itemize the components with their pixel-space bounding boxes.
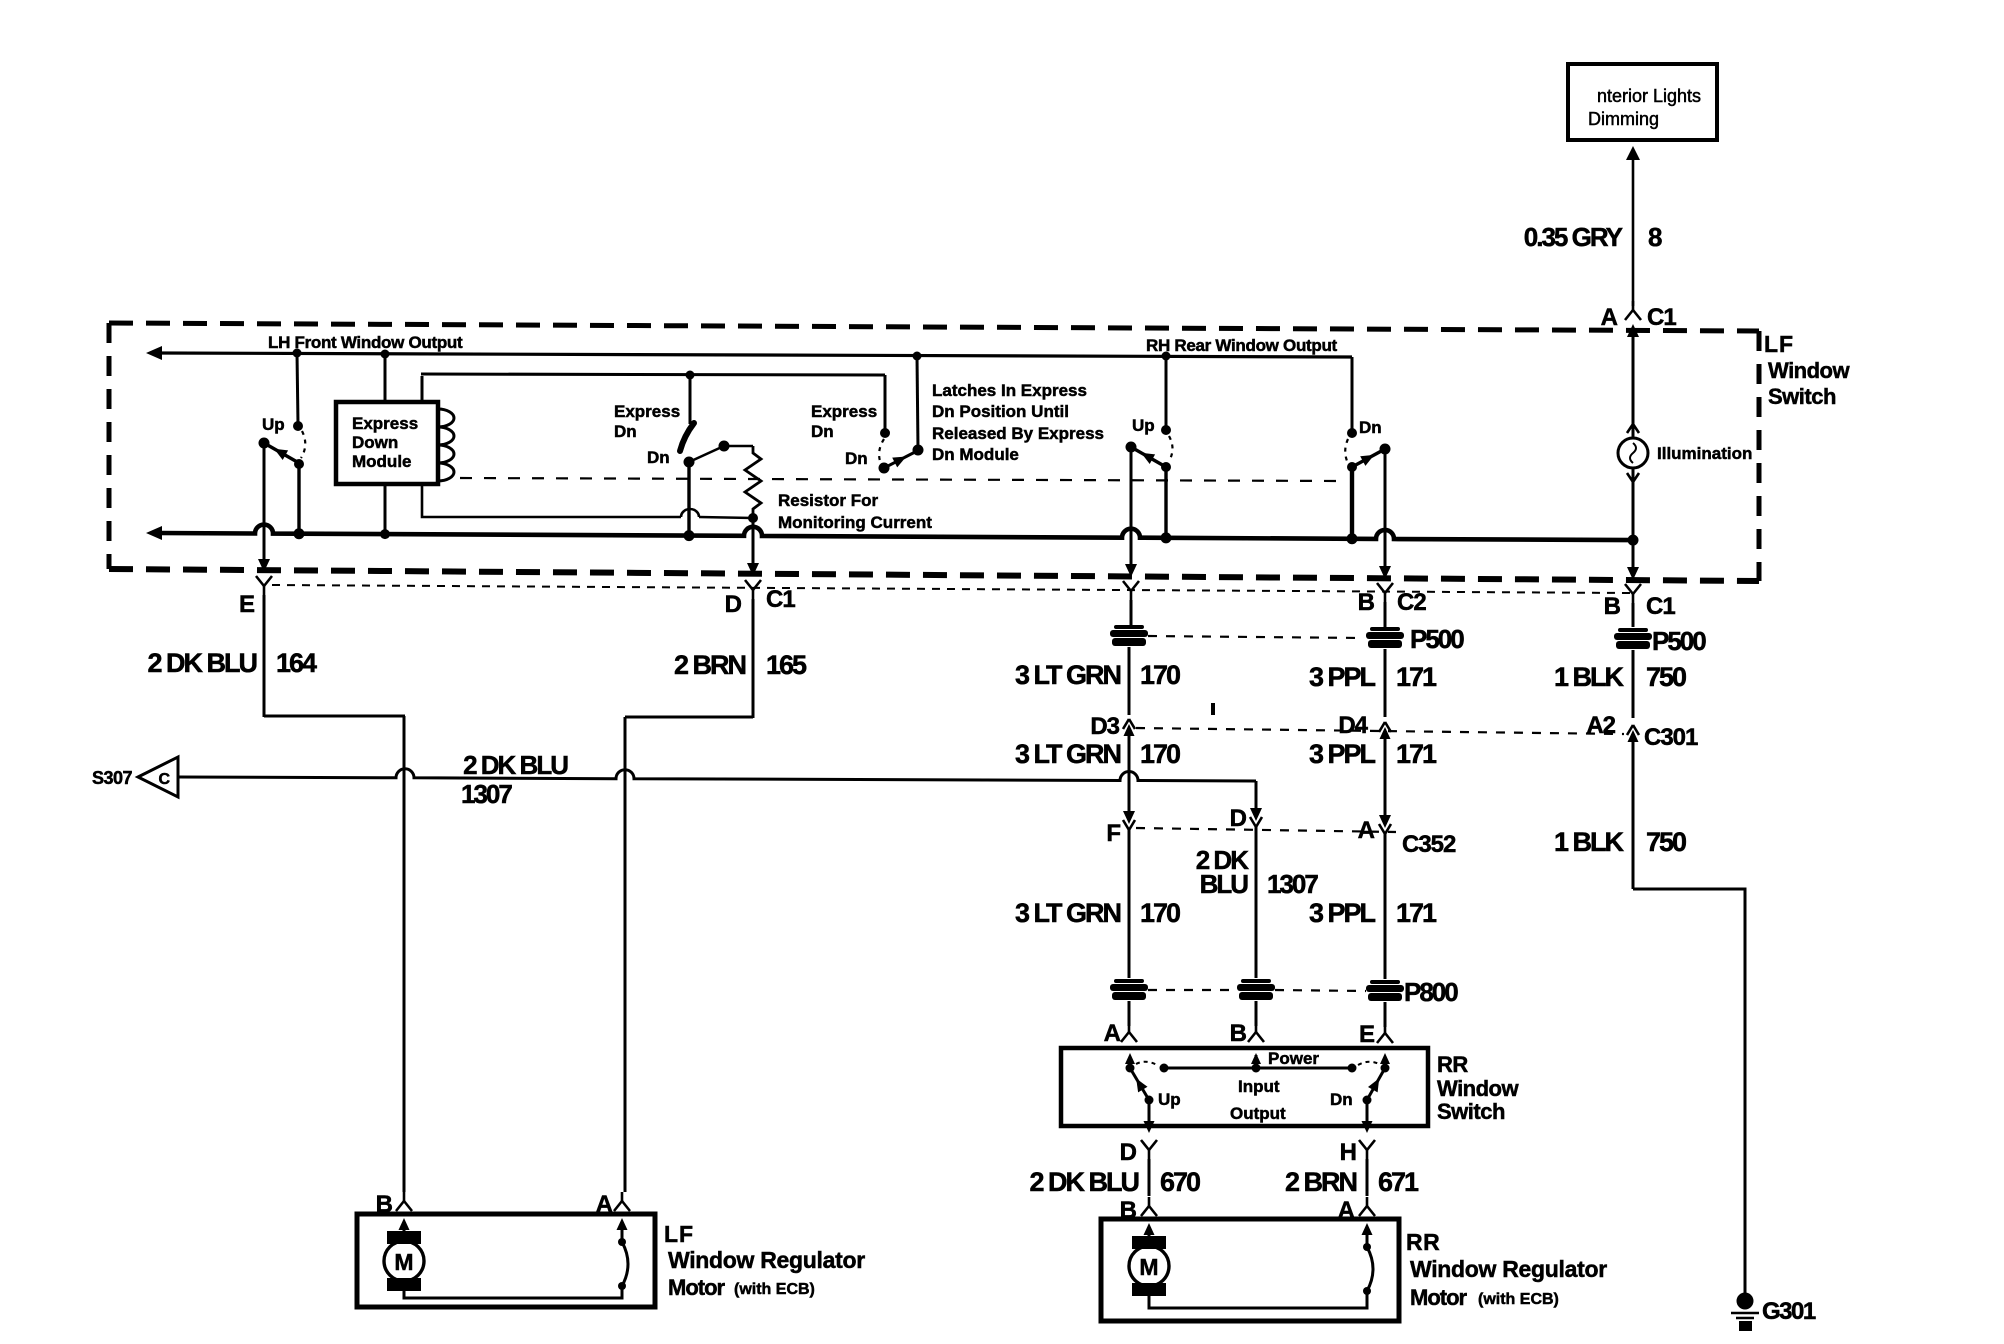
svg-text:Express: Express [811, 402, 877, 421]
svg-text:C1: C1 [766, 586, 795, 613]
svg-text:164: 164 [276, 648, 317, 678]
svg-text:Express: Express [614, 402, 680, 421]
svg-text:2 BRN: 2 BRN [1285, 1167, 1357, 1197]
svg-text:P500: P500 [1410, 624, 1464, 654]
svg-text:171: 171 [1396, 739, 1437, 769]
svg-text:E: E [1359, 1021, 1375, 1048]
svg-text:3 LT GRN: 3 LT GRN [1015, 898, 1121, 928]
svg-text:C: C [158, 771, 170, 788]
svg-text:Switch: Switch [1768, 384, 1836, 409]
svg-text:750: 750 [1646, 662, 1686, 692]
svg-text:Dn: Dn [845, 449, 868, 468]
svg-text:D: D [1230, 805, 1247, 832]
svg-text:Illumination: Illumination [1657, 444, 1752, 463]
svg-text:Motor: Motor [1410, 1285, 1468, 1310]
svg-text:Dn Position Until: Dn Position Until [932, 402, 1069, 421]
svg-text:D: D [1120, 1139, 1137, 1166]
svg-text:(with ECB): (with ECB) [1478, 1291, 1559, 1308]
svg-text:RH Rear Window Output: RH Rear Window Output [1146, 336, 1338, 355]
svg-text:LF: LF [1764, 331, 1794, 357]
svg-text:Window: Window [1437, 1076, 1519, 1101]
svg-text:Dn Module: Dn Module [932, 445, 1019, 464]
svg-text:D3: D3 [1090, 713, 1119, 740]
svg-text:C1: C1 [1646, 593, 1675, 620]
svg-text:B: B [1358, 589, 1375, 616]
svg-text:C2: C2 [1397, 589, 1426, 616]
svg-text:Dn: Dn [1330, 1090, 1353, 1109]
svg-text:Window Regulator: Window Regulator [1410, 1256, 1607, 1282]
svg-text:Up: Up [1158, 1090, 1181, 1109]
svg-text:Resistor For: Resistor For [778, 491, 879, 510]
svg-text:Module: Module [352, 452, 412, 471]
svg-text:A: A [1104, 1020, 1121, 1047]
svg-text:Motor: Motor [668, 1275, 726, 1300]
svg-text:3 PPL: 3 PPL [1309, 898, 1376, 928]
svg-text:Up: Up [262, 415, 285, 434]
svg-text:1307: 1307 [461, 779, 512, 809]
svg-text:Monitoring Current: Monitoring Current [778, 513, 932, 532]
svg-text:0.35 GRY: 0.35 GRY [1524, 222, 1623, 252]
svg-text:M: M [394, 1249, 413, 1275]
svg-text:Dn: Dn [647, 448, 670, 467]
svg-text:Window Regulator: Window Regulator [668, 1247, 865, 1273]
svg-text:Dn: Dn [614, 422, 637, 441]
svg-text:P800: P800 [1404, 977, 1458, 1007]
svg-text:A: A [1358, 817, 1375, 844]
svg-text:670: 670 [1160, 1167, 1200, 1197]
svg-text:171: 171 [1396, 898, 1437, 928]
svg-text:171: 171 [1396, 662, 1437, 692]
svg-text:H: H [1340, 1139, 1356, 1166]
svg-text:Dimming: Dimming [1588, 109, 1659, 129]
svg-text:BLU: BLU [1200, 869, 1249, 899]
svg-text:D: D [725, 591, 742, 618]
svg-text:2 DK BLU: 2 DK BLU [147, 648, 256, 678]
svg-text:E: E [239, 591, 255, 618]
svg-text:RR: RR [1437, 1052, 1468, 1077]
svg-text:Dn: Dn [811, 422, 834, 441]
svg-text:S307: S307 [92, 768, 133, 788]
svg-text:F: F [1106, 820, 1120, 847]
svg-text:C352: C352 [1402, 831, 1456, 858]
svg-text:3 LT GRN: 3 LT GRN [1015, 739, 1121, 769]
svg-text:3 PPL: 3 PPL [1309, 662, 1376, 692]
svg-text:A2: A2 [1586, 712, 1615, 739]
svg-text:P500: P500 [1652, 626, 1706, 656]
svg-text:C301: C301 [1644, 724, 1698, 751]
svg-text:Down: Down [352, 433, 398, 452]
svg-text:Switch: Switch [1437, 1099, 1505, 1124]
svg-text:170: 170 [1140, 739, 1180, 769]
svg-text:Input: Input [1238, 1077, 1280, 1096]
svg-text:165: 165 [766, 650, 807, 680]
svg-text:3 PPL: 3 PPL [1309, 739, 1376, 769]
svg-text:(with ECB): (with ECB) [734, 1281, 815, 1298]
svg-text:2 DK BLU: 2 DK BLU [1029, 1167, 1138, 1197]
svg-text:Window: Window [1768, 358, 1850, 383]
svg-text:Latches In Express: Latches In Express [932, 381, 1087, 400]
svg-text:3 LT GRN: 3 LT GRN [1015, 660, 1121, 690]
svg-text:D4: D4 [1338, 712, 1368, 739]
svg-text:170: 170 [1140, 898, 1180, 928]
svg-text:nterior Lights: nterior Lights [1597, 86, 1701, 106]
svg-text:A: A [1601, 304, 1618, 331]
svg-text:1307: 1307 [1267, 869, 1318, 899]
svg-text:8: 8 [1648, 222, 1662, 252]
svg-text:1 BLK: 1 BLK [1554, 662, 1625, 692]
svg-text:LF: LF [664, 1221, 694, 1247]
svg-text:G301: G301 [1762, 1298, 1816, 1325]
svg-text:170: 170 [1140, 660, 1180, 690]
svg-text:Output: Output [1230, 1104, 1286, 1123]
svg-text:B: B [1230, 1020, 1247, 1047]
svg-text:Released By Express: Released By Express [932, 424, 1104, 443]
svg-text:750: 750 [1646, 827, 1686, 857]
svg-text:1 BLK: 1 BLK [1554, 827, 1625, 857]
svg-text:Up: Up [1132, 416, 1155, 435]
svg-text:Power: Power [1268, 1049, 1319, 1068]
svg-text:B: B [1604, 593, 1621, 620]
svg-text:M: M [1139, 1254, 1158, 1280]
svg-text:Dn: Dn [1359, 418, 1382, 437]
svg-text:2 BRN: 2 BRN [674, 650, 746, 680]
svg-text:671: 671 [1378, 1167, 1419, 1197]
svg-text:2 DK BLU: 2 DK BLU [463, 750, 568, 780]
svg-text:C1: C1 [1647, 304, 1676, 331]
svg-text:Express: Express [352, 414, 418, 433]
svg-text:RR: RR [1406, 1229, 1440, 1255]
